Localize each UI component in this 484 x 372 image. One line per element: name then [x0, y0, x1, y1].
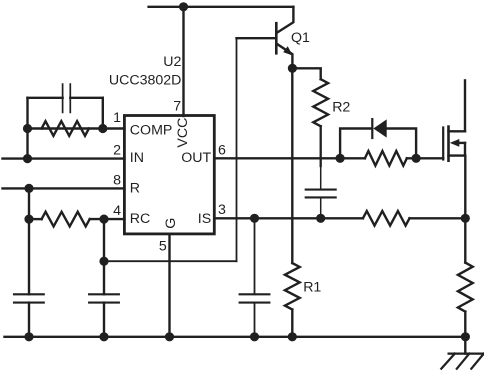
node comp resistor left — [24, 125, 31, 132]
node IN junction — [24, 155, 31, 162]
node rail CT — [101, 333, 108, 340]
node IS sense junction — [462, 215, 469, 222]
capacitor CT — [89, 294, 119, 302]
svg-text:COMP: COMP — [130, 122, 173, 138]
wire comp right riser — [102, 98, 104, 129]
IC U2 UCC3802D — [109, 54, 226, 255]
wire R2 to coupling cap — [320, 126, 322, 189]
svg-text:R: R — [130, 180, 140, 196]
node pin5 ground junction — [166, 333, 173, 340]
node IS cap branch — [251, 215, 258, 222]
svg-text:8: 8 — [113, 173, 121, 189]
resistor CS filter — [363, 211, 410, 226]
svg-text:3: 3 — [218, 202, 226, 218]
wire Q1 base vertical — [236, 38, 238, 261]
wire pin8 R line — [3, 187, 125, 189]
svg-text:OUT: OUT — [181, 150, 211, 166]
wire RC column — [103, 219, 105, 337]
capacitor comp CF — [28, 84, 103, 112]
svg-text:VCC: VCC — [175, 118, 191, 148]
wire R1 to rail — [291, 310, 293, 337]
wire pin3 IS line — [214, 217, 465, 219]
svg-text:6: 6 — [218, 142, 226, 158]
wire diode to right node — [387, 129, 416, 159]
capacitor slope coupling — [306, 190, 336, 198]
svg-text:R2: R2 — [332, 99, 350, 115]
wire pin6 OUT line — [214, 157, 443, 159]
capacitor CS filter — [240, 294, 270, 302]
wire pin4 RC stub — [29, 218, 124, 220]
wire diode branch — [340, 129, 371, 159]
svg-text:2: 2 — [113, 142, 121, 158]
transistor Q1 — [237, 7, 311, 69]
wire source column — [464, 156, 466, 263]
diode gate discharge — [372, 119, 386, 138]
svg-text:UCC3802D: UCC3802D — [109, 73, 182, 89]
node IS coupling cap — [317, 215, 324, 222]
resistor comp RF — [42, 121, 89, 136]
node RT right / RC node — [101, 216, 108, 223]
resistor current sense — [458, 263, 473, 312]
svg-text:G: G — [163, 218, 179, 229]
node R junction — [26, 185, 33, 192]
wire ground rail — [5, 336, 466, 338]
node rail REF — [26, 333, 33, 340]
svg-text:U2: U2 — [163, 54, 181, 70]
node RT left — [26, 216, 33, 223]
resistor gate series — [365, 151, 407, 166]
svg-text:IN: IN — [130, 150, 144, 166]
node OUT diode right — [413, 155, 420, 162]
node OUT diode left — [337, 155, 344, 162]
svg-text:5: 5 — [159, 239, 167, 255]
ground — [441, 354, 484, 369]
wire comp left riser — [26, 98, 28, 159]
capacitor REF bypass — [14, 294, 44, 302]
node rail R1 — [289, 333, 296, 340]
svg-text:R1: R1 — [303, 279, 321, 295]
wire IS cap drop — [254, 218, 256, 336]
wire sense to rail — [464, 312, 466, 337]
wire rail to ground — [464, 337, 466, 354]
wire pin1 COMP row — [28, 127, 125, 129]
node Q1 emitter — [289, 65, 296, 72]
node RC branch to Q1 base — [101, 258, 108, 265]
wire pin5 G drop — [168, 234, 170, 337]
svg-text:Q1: Q1 — [291, 30, 310, 46]
wire emitter to R1 — [291, 68, 293, 263]
svg-text:4: 4 — [113, 203, 121, 219]
svg-text:7: 7 — [173, 99, 181, 115]
wire REF column — [28, 188, 30, 336]
resistor RT — [42, 212, 90, 227]
resistor R1 — [285, 263, 322, 309]
svg-text:RC: RC — [130, 211, 151, 227]
wire coupling cap to IS — [320, 197, 322, 218]
transistor MOSFET switch — [443, 80, 465, 160]
svg-text:IS: IS — [198, 211, 211, 227]
node comp resistor right — [99, 125, 106, 132]
wire RC to Q1 base horizontal — [104, 260, 237, 262]
wire emitter to R2 — [292, 68, 320, 79]
node rail CS cap — [251, 333, 258, 340]
node rail sense — [462, 333, 469, 340]
wire pin7 VCC drop — [182, 7, 184, 116]
node VCC junction — [180, 3, 187, 10]
resistor R2 — [313, 79, 350, 126]
wire VCC top rail — [149, 6, 294, 8]
wire pin2 IN line — [3, 157, 125, 159]
svg-text:1: 1 — [113, 110, 121, 126]
